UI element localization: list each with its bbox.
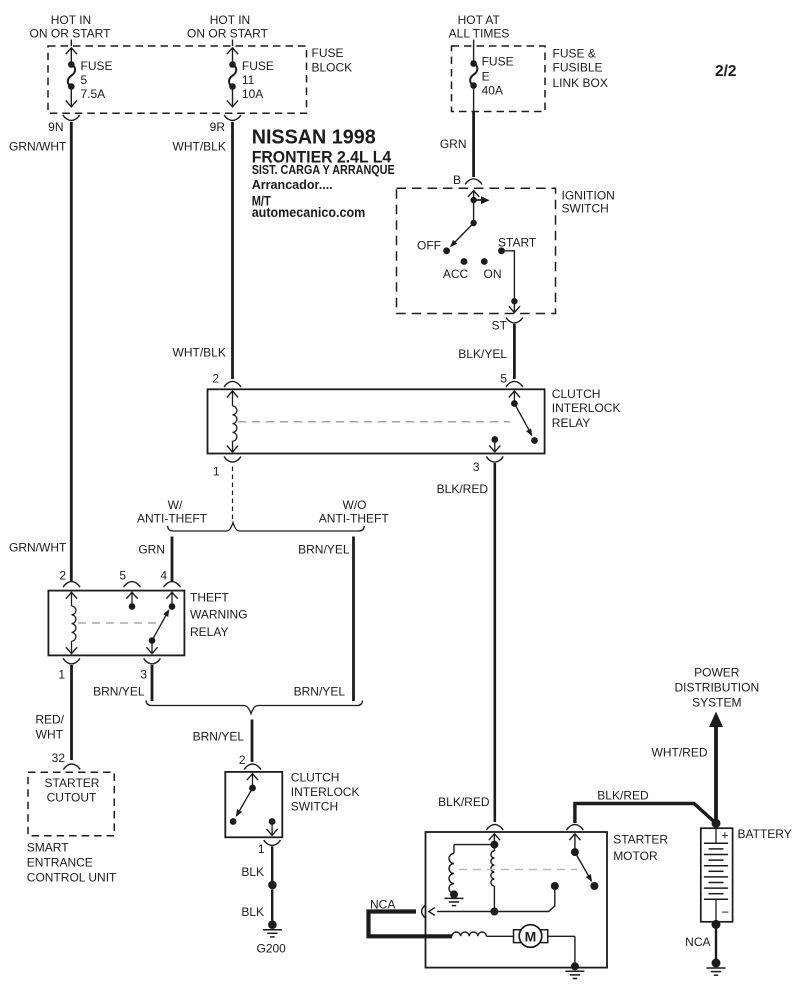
ignition switch internals <box>450 191 490 248</box>
svg-text:Arrancador....: Arrancador.... <box>252 177 333 192</box>
svg-text:POWER: POWER <box>694 666 740 680</box>
battery negative node <box>712 920 721 929</box>
theft relay pin 5 stub <box>126 592 137 610</box>
pin 5 connector <box>500 372 522 388</box>
svg-text:OFF: OFF <box>417 239 441 253</box>
svg-text:RED/: RED/ <box>35 713 64 727</box>
svg-text:CLUTCH: CLUTCH <box>552 387 601 401</box>
wire BLK segment 2 <box>241 890 272 921</box>
label W/ ANTI-THEFT <box>137 498 208 526</box>
wire BLK/YEL (ST to relay pin 5) <box>458 324 514 379</box>
svg-text:ST: ST <box>492 319 508 333</box>
svg-text:CLUTCH: CLUTCH <box>291 771 340 785</box>
pin 5 connector <box>119 569 140 588</box>
contact START <box>498 236 537 255</box>
starter cutout dashed box <box>28 772 114 836</box>
svg-text:FUSIBLE: FUSIBLE <box>553 61 603 75</box>
svg-text:32: 32 <box>52 751 66 765</box>
theft warning relay box <box>48 591 184 656</box>
starter motor M and field coil <box>452 925 584 979</box>
svg-text:HOT AT: HOT AT <box>458 13 501 27</box>
battery box <box>701 828 733 922</box>
svg-text:2/2: 2/2 <box>715 63 737 80</box>
page marker 2/2 <box>715 63 737 80</box>
svg-text:BLK: BLK <box>241 865 264 879</box>
svg-text:MOTOR: MOTOR <box>613 849 658 863</box>
svg-text:1: 1 <box>58 668 65 682</box>
svg-text:FUSE: FUSE <box>242 59 274 73</box>
pin 2 connector <box>239 753 261 770</box>
label SMART ENTRANCE CONTROL UNIT <box>27 841 117 885</box>
svg-text:40A: 40A <box>482 84 503 98</box>
svg-text:BLK/YEL: BLK/YEL <box>458 347 507 361</box>
battery positive node <box>712 819 721 828</box>
contact ON <box>481 258 502 281</box>
connector ST <box>492 317 523 332</box>
solenoid contact node <box>490 882 558 916</box>
svg-text:W/O: W/O <box>343 498 367 512</box>
svg-text:3: 3 <box>473 460 480 474</box>
battery cells <box>704 828 728 922</box>
svg-text:DISTRIBUTION: DISTRIBUTION <box>674 681 759 695</box>
svg-text:WHT/BLK: WHT/BLK <box>173 346 226 360</box>
svg-text:GRN/WHT: GRN/WHT <box>9 140 67 154</box>
svg-text:GRN: GRN <box>440 137 467 151</box>
svg-text:ON: ON <box>484 267 502 281</box>
svg-text:3: 3 <box>140 668 147 682</box>
label STARTER MOTOR <box>613 833 668 864</box>
pin 2 connector <box>59 569 80 588</box>
svg-text:BRN/YEL: BRN/YEL <box>193 730 245 744</box>
svg-text:CUTOUT: CUTOUT <box>47 791 97 805</box>
relay internal dashed link <box>238 421 510 423</box>
svg-text:11: 11 <box>242 73 255 87</box>
svg-text:FUSE: FUSE <box>81 59 113 73</box>
svg-text:M: M <box>525 929 537 945</box>
wire BLK/RED (starter to battery) <box>575 789 716 824</box>
pin 4 connector <box>160 569 180 588</box>
svg-text:9R: 9R <box>210 120 226 134</box>
label HOT IN ON OR START (fuse 11) <box>187 13 269 41</box>
connector (to battery) <box>567 825 584 831</box>
svg-text:BLOCK: BLOCK <box>312 61 353 75</box>
svg-text:WHT/BLK: WHT/BLK <box>173 140 226 154</box>
label IGNITION SWITCH <box>562 189 615 216</box>
svg-text:FUSE: FUSE <box>312 46 344 60</box>
svg-text:7.5A: 7.5A <box>81 87 106 101</box>
label FUSE BLOCK <box>312 46 353 75</box>
svg-text:RELAY: RELAY <box>190 625 228 639</box>
svg-text:E: E <box>482 70 490 84</box>
svg-text:W/: W/ <box>168 498 183 512</box>
svg-text:WHT: WHT <box>36 728 64 742</box>
fuse F5 (FUSE 5 7.5A) <box>66 40 113 107</box>
relay coil (pins 2-1) <box>227 391 238 452</box>
svg-text:START: START <box>498 236 537 250</box>
svg-text:STARTER: STARTER <box>45 776 100 790</box>
splice junction <box>268 881 277 890</box>
clutch switch internals <box>230 774 278 836</box>
connector 32 <box>52 751 81 770</box>
label CLUTCH INTERLOCK RELAY <box>552 387 621 430</box>
fuse FE (FUSE E 40A) <box>470 40 514 112</box>
svg-text:BLK/RED: BLK/RED <box>437 482 489 496</box>
ground G200 <box>257 920 287 955</box>
wire START to ST <box>502 251 521 313</box>
svg-text:BLK/RED: BLK/RED <box>438 795 490 809</box>
wire NCA (battery to ground) <box>685 929 716 960</box>
svg-text:RELAY: RELAY <box>552 416 590 430</box>
svg-text:CONTROL UNIT: CONTROL UNIT <box>27 871 117 885</box>
svg-text:WHT/RED: WHT/RED <box>652 746 708 760</box>
svg-text:BRN/YEL: BRN/YEL <box>298 543 350 557</box>
wire BLK segment 1 <box>241 847 272 882</box>
wire BLK/RED (relay pin 3 to starter motor) <box>437 463 495 822</box>
svg-text:2: 2 <box>239 753 246 767</box>
svg-text:ON OR START: ON OR START <box>187 27 269 41</box>
svg-text:SWITCH: SWITCH <box>291 800 338 814</box>
starter solenoid coils <box>445 834 501 912</box>
starter internal dashed link <box>459 869 577 871</box>
svg-text:ENTRANCE: ENTRANCE <box>27 856 93 870</box>
theft relay switch (pins 4-3) <box>146 592 177 653</box>
connector (BLK/RED from relay) <box>486 825 503 831</box>
brace merge bottom <box>146 701 363 714</box>
svg-text:2: 2 <box>59 569 66 583</box>
label HOT AT ALL TIMES <box>449 13 510 41</box>
svg-text:IGNITION: IGNITION <box>562 189 615 203</box>
clutch interlock relay box <box>208 389 545 453</box>
svg-text:NISSAN 1998: NISSAN 1998 <box>252 127 376 149</box>
pin 1 connector <box>258 840 281 856</box>
wire BRN/YEL (to clutch interlock switch pin 2) <box>193 720 252 763</box>
contact ACC <box>443 258 469 281</box>
NCA wire out of starter <box>369 898 495 937</box>
fuse and fusible link box dashed <box>452 46 546 112</box>
svg-text:ACC: ACC <box>443 267 469 281</box>
connector 9N below fuse block <box>48 115 80 134</box>
label THEFT WARNING RELAY <box>190 591 248 640</box>
svg-text:ON OR START: ON OR START <box>30 27 112 41</box>
svg-text:G200: G200 <box>257 942 287 956</box>
battery ground <box>707 959 726 976</box>
svg-text:GRN/WHT: GRN/WHT <box>9 541 67 555</box>
svg-text:STARTER: STARTER <box>613 833 668 847</box>
pin 1 connector <box>213 457 241 479</box>
svg-text:SYSTEM: SYSTEM <box>692 696 741 710</box>
wire GRN (to theft warning relay pin 4) <box>138 537 172 582</box>
svg-text:HOT IN: HOT IN <box>210 13 250 27</box>
svg-text:BATTERY: BATTERY <box>738 827 792 841</box>
svg-text:+: + <box>721 829 728 843</box>
clutch interlock switch box <box>225 772 282 837</box>
pin 3 connector <box>473 457 503 475</box>
svg-text:2: 2 <box>212 372 219 386</box>
contact OFF <box>417 239 450 255</box>
svg-text:BRN/YEL: BRN/YEL <box>294 685 346 699</box>
wire RED/WHT (pin 1 to starter cutout) <box>35 665 71 760</box>
svg-text:1: 1 <box>258 842 265 856</box>
label FUSE & FUSIBLE LINK BOX <box>553 47 608 91</box>
svg-text:THEFT: THEFT <box>190 591 229 605</box>
label HOT IN ON OR START (fuse 5) <box>30 13 112 41</box>
svg-text:BRN/YEL: BRN/YEL <box>93 685 145 699</box>
svg-text:automecanico.com: automecanico.com <box>252 204 366 220</box>
starter switch contacts <box>569 834 598 890</box>
svg-text:−: − <box>721 905 729 920</box>
connector 9R below fuse block <box>210 115 241 134</box>
label W/O ANTI-THEFT <box>319 498 390 526</box>
theft relay internal dashed link <box>78 622 158 624</box>
theft relay coil (pins 2-1) <box>66 592 77 653</box>
svg-text:INTERLOCK: INTERLOCK <box>552 401 621 415</box>
svg-text:HOT IN: HOT IN <box>51 13 91 27</box>
svg-text:1: 1 <box>213 465 220 479</box>
label STARTER CUTOUT <box>45 776 100 805</box>
label POWER DISTRIBUTION SYSTEM <box>674 666 759 710</box>
node B connector <box>453 173 482 187</box>
fuse F11 (FUSE 11 10A) <box>227 40 274 107</box>
svg-text:B: B <box>453 173 461 187</box>
svg-text:FUSE: FUSE <box>482 55 514 69</box>
pin 2 connector <box>212 372 241 388</box>
wire BRN/YEL (W/O anti-theft branch) <box>294 537 354 702</box>
wire GRN/WHT (fuse 5 to theft warning relay pin 2) <box>9 122 71 581</box>
svg-text:INTERLOCK: INTERLOCK <box>291 785 360 799</box>
svg-text:ANTI-THEFT: ANTI-THEFT <box>319 512 390 526</box>
wire WHT/RED (battery to power distribution) <box>652 727 717 820</box>
svg-text:FUSE &: FUSE & <box>553 47 596 61</box>
svg-text:10A: 10A <box>242 87 263 101</box>
label BATTERY <box>738 827 792 841</box>
svg-text:4: 4 <box>160 569 167 583</box>
dashed wire from relay pin 1 <box>232 467 234 520</box>
svg-text:5: 5 <box>500 372 507 386</box>
label CLUTCH INTERLOCK SWITCH <box>291 771 360 814</box>
svg-text:9N: 9N <box>48 120 63 134</box>
svg-text:GRN: GRN <box>138 543 165 557</box>
svg-text:ALL TIMES: ALL TIMES <box>449 27 510 41</box>
wire BRN/YEL (pin 3 down to merge brace) <box>93 665 152 701</box>
svg-text:LINK BOX: LINK BOX <box>553 76 608 90</box>
svg-text:BLK/RED: BLK/RED <box>597 789 649 803</box>
pin 1 connector <box>58 658 80 681</box>
svg-text:WARNING: WARNING <box>190 608 248 622</box>
pin 3 connector <box>140 658 160 681</box>
svg-text:SMART: SMART <box>27 841 69 855</box>
fuse block dashed box <box>48 46 307 113</box>
svg-text:SIST. CARGA Y ARRANQUE: SIST. CARGA Y ARRANQUE <box>252 163 395 177</box>
svg-text:ANTI-THEFT: ANTI-THEFT <box>137 512 208 526</box>
starter motor box <box>426 832 608 968</box>
wire GRN (fuse E to ignition switch B) <box>440 112 474 178</box>
brace split top <box>168 523 365 532</box>
svg-text:NCA: NCA <box>685 935 710 949</box>
power distribution arrow <box>709 712 723 728</box>
relay switch (pins 5-3) <box>489 391 538 452</box>
svg-text:5: 5 <box>81 73 88 87</box>
wire WHT/BLK (fuse 11 to clutch interlock relay pin 2) <box>173 122 233 379</box>
svg-text:5: 5 <box>119 569 126 583</box>
svg-text:SWITCH: SWITCH <box>562 202 609 216</box>
svg-text:BLK: BLK <box>241 905 264 919</box>
ignition switch dashed box <box>397 188 556 313</box>
